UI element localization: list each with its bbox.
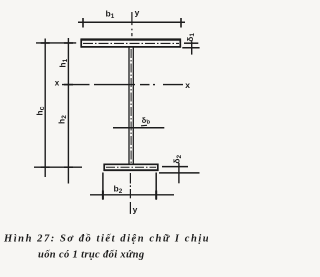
top flange — [81, 39, 181, 48]
svg-text:y: y — [135, 8, 140, 18]
svg-text:Hình 27: Sơ đồ tiết diện chữ I: Hình 27: Sơ đồ tiết diện chữ I chịu — [3, 234, 208, 245]
wire x-axis centerline — [62, 84, 183, 86]
bottom flange — [104, 164, 159, 172]
svg-text:x: x — [55, 78, 60, 87]
svg-text:x: x — [185, 80, 190, 90]
web — [129, 48, 133, 165]
dimension d2 ticks — [159, 163, 200, 183]
svg-text:uốn có 1 trục đối xứng: uốn có 1 trục đối xứng — [38, 250, 144, 261]
dimension hc line — [41, 39, 50, 178]
wire top extension line — [36, 42, 76, 44]
wire y-axis top centerline — [131, 12, 133, 36]
wire y-axis bottom centerline — [129, 173, 131, 214]
dimension db line — [113, 125, 164, 127]
dimension d1 ticks — [182, 41, 199, 54]
dimension b1 — [78, 18, 185, 28]
wire bottom extension line — [34, 166, 82, 168]
dimension h1/h2 line — [64, 38, 73, 184]
svg-text:y: y — [133, 205, 138, 215]
dimension b2 — [90, 173, 174, 200]
